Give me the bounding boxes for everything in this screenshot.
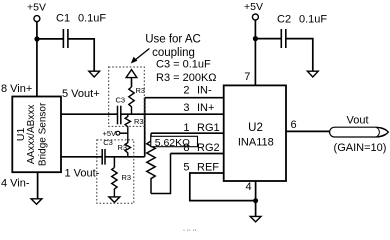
wire +5V left down to U1 pin 8 [36, 22, 38, 97]
wire riser up to IN- [144, 98, 146, 157]
wire +5V right down to U2 pin 7 [254, 20, 256, 85]
svg-text:R3: R3 [136, 86, 146, 95]
wire RG2 [171, 153, 224, 155]
svg-text:+5V: +5V [27, 2, 46, 14]
wire U2 pin 6 to output [286, 130, 330, 132]
ground in lower dashed box [109, 197, 120, 203]
svg-text:IN-: IN- [197, 84, 212, 96]
svg-text:R3 = 200KΩ: R3 = 200KΩ [156, 72, 217, 84]
wire C3 upper to U2 IN+ [121, 113, 224, 115]
wire REF routed to ground node [190, 173, 256, 201]
wire RG1 [151, 132, 224, 134]
svg-text:5: 5 [183, 162, 189, 174]
svg-text:R3: R3 [134, 117, 144, 126]
svg-text:0.1uF: 0.1uF [299, 14, 327, 26]
ground below U1 [31, 199, 42, 205]
svg-text:Bridge Sensor: Bridge Sensor [37, 102, 48, 166]
resistor R3 mid upper [125, 114, 143, 133]
node +5V right terminal [244, 1, 263, 20]
svg-text:C3 = 0.1uF: C3 = 0.1uF [156, 59, 211, 71]
ground below C2 [307, 71, 318, 77]
wire U1 pin 1 to C3 lower [61, 156, 102, 158]
svg-text:RG1: RG1 [197, 122, 220, 134]
svg-text:4: 4 [246, 181, 252, 193]
wire C2 to ground [286, 39, 313, 72]
svg-text:. .. ..: . .. .. [183, 226, 197, 232]
wire U2 pin 4 down [255, 181, 257, 216]
node +5V left terminal [27, 2, 46, 22]
svg-text:INA118: INA118 [238, 137, 274, 149]
wire junction to C1 [37, 38, 63, 40]
svg-text:R3: R3 [118, 143, 128, 152]
capacitor C1 [56, 13, 106, 49]
resistor RG 5.62k [147, 133, 171, 193]
wire IN- to U2 pin 2 [145, 97, 224, 99]
svg-text:1: 1 [183, 122, 189, 134]
svg-text:IN+: IN+ [197, 102, 214, 114]
svg-text:C1: C1 [56, 13, 70, 25]
svg-text:1 Vout-: 1 Vout- [65, 167, 100, 179]
svg-text:8: 8 [183, 142, 189, 154]
svg-text:R3: R3 [122, 173, 132, 182]
node junction dot pin4/REF [253, 198, 258, 203]
capacitor C3 upper [116, 96, 126, 125]
node junction dot right [253, 36, 258, 41]
svg-text:U2: U2 [248, 122, 263, 134]
svg-text:4 Vin-: 4 Vin- [1, 177, 30, 189]
wire C1 to ground [68, 39, 94, 71]
svg-text:REF: REF [197, 162, 219, 174]
ground below U2 [250, 216, 261, 222]
svg-text:C3: C3 [116, 96, 126, 105]
op-amp U2 INA118 [224, 85, 286, 181]
svg-text:RG2: RG2 [197, 142, 220, 154]
bridge sensor U1 [12, 97, 61, 173]
svg-text:AAxxx/ABxxx: AAxxx/ABxxx [26, 105, 37, 164]
wire U1 pin 4 to ground [37, 172, 39, 199]
wire C3 lower to vertical riser [105, 156, 145, 158]
capacitor C2 [277, 14, 327, 49]
annotation text [145, 33, 216, 83]
svg-text:3: 3 [183, 102, 189, 114]
svg-text:7: 7 [244, 71, 250, 83]
resistor R3 shunt to ground [112, 157, 131, 197]
svg-text:Use for AC: Use for AC [145, 33, 201, 45]
svg-text:U1: U1 [15, 128, 27, 142]
svg-text:coupling: coupling [152, 47, 195, 59]
wire junction to C2 [255, 38, 281, 40]
supply arrow +5V upper box [126, 70, 137, 78]
svg-text:5 Vout+: 5 Vout+ [62, 88, 100, 100]
node junction dot left [34, 36, 39, 41]
value label box 5.62K [151, 136, 198, 149]
resistor R3 mid lower [118, 133, 131, 157]
resistor R3 pullup [129, 86, 145, 114]
dashed box lower AC coupling [97, 140, 134, 203]
svg-text:+5V: +5V [244, 1, 263, 13]
svg-text:+5V: +5V [103, 129, 117, 138]
svg-text:C2: C2 [277, 14, 291, 26]
dashed box upper AC coupling [109, 67, 145, 126]
svg-text:6: 6 [291, 119, 297, 131]
node +5V bias terminal [103, 129, 120, 138]
svg-text:0.1uF: 0.1uF [78, 13, 106, 25]
annotation arrow [131, 49, 150, 64]
wire +5V bias to divider [120, 132, 128, 134]
capacitor C3 lower [102, 138, 113, 164]
svg-text:(GAIN=10): (GAIN=10) [334, 142, 387, 154]
ground below C1 [89, 71, 100, 77]
output connector Vout [330, 127, 389, 137]
svg-text:2: 2 [183, 84, 189, 96]
wire U1 pin 5 to C3 upper [61, 113, 118, 115]
wire arrow to R3 top [131, 78, 133, 87]
svg-text:8 Vin+: 8 Vin+ [1, 83, 32, 95]
svg-text:Vout: Vout [346, 115, 368, 127]
